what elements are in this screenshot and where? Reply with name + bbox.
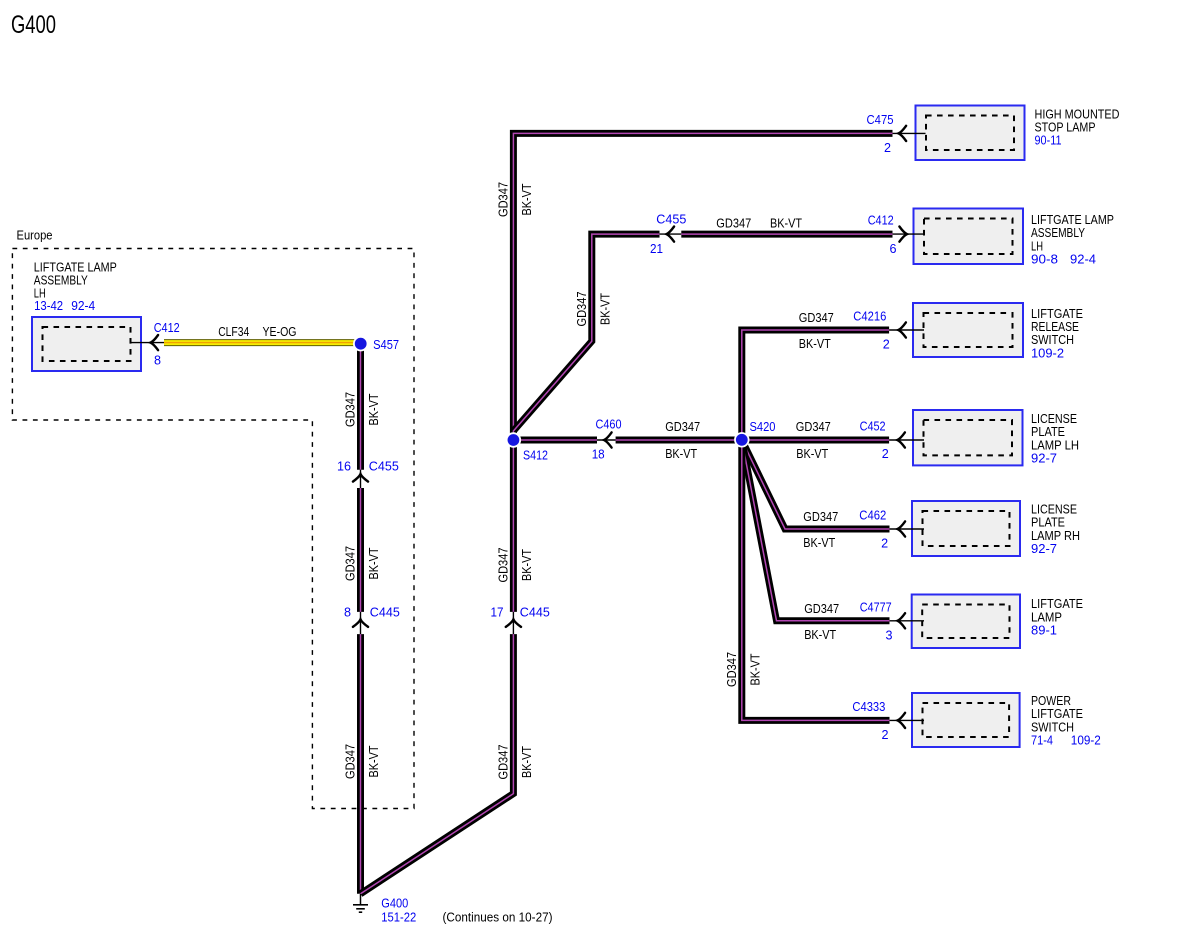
label LIFTGATE LAMP (right) xyxy=(1031,212,1114,227)
svg-text:151-22: 151-22 xyxy=(381,909,416,924)
svg-text:C4216: C4216 xyxy=(853,309,886,324)
label PLATE (LH) xyxy=(1031,424,1065,439)
label PLATE (RH) xyxy=(1031,515,1065,530)
connector arrow C445 pin 17 xyxy=(506,619,521,627)
svg-text:2: 2 xyxy=(882,446,889,461)
pin 16 xyxy=(337,459,351,474)
label GD347 (center lower segment) xyxy=(496,745,511,780)
svg-text:S457: S457 xyxy=(373,337,399,352)
connector box: license plate lamp LH C452 xyxy=(913,410,1023,465)
label GD347 (C4216 wire) xyxy=(799,310,834,325)
label BK-VT (C4216 wire) xyxy=(799,336,831,351)
pin 2 (C462) xyxy=(881,536,888,551)
svg-text:GD347: GD347 xyxy=(799,310,834,325)
svg-text:90-8: 90-8 xyxy=(1031,252,1058,267)
wire GD347 BK-VT: S412 to C460 pin 18 xyxy=(513,437,597,444)
label LH (right) xyxy=(1031,238,1043,253)
title G400 xyxy=(11,11,56,39)
svg-text:GD347: GD347 xyxy=(796,419,831,434)
label ASSEMBLY (right) xyxy=(1031,225,1085,240)
label C4216 xyxy=(853,309,886,324)
svg-text:GD347: GD347 xyxy=(724,652,739,687)
page ref 151-22 xyxy=(381,909,416,924)
svg-text:GD347: GD347 xyxy=(496,548,511,583)
svg-text:BK-VT: BK-VT xyxy=(799,336,831,351)
svg-text:G400: G400 xyxy=(11,11,56,39)
label GD347 (C452 wire) xyxy=(796,419,831,434)
label C4333 xyxy=(852,699,885,714)
svg-text:C452: C452 xyxy=(860,419,886,434)
wire GD347 BK-VT: S420 to license plate lamp LH C452 xyxy=(742,437,889,444)
label GD347 (S412-S420 wire) xyxy=(665,419,700,434)
page ref 13-42 xyxy=(34,298,63,313)
label GD347 (top segment) xyxy=(496,182,511,217)
svg-text:92-4: 92-4 xyxy=(71,298,95,313)
svg-text:C455: C455 xyxy=(656,212,686,227)
svg-text:BK-VT: BK-VT xyxy=(665,446,697,461)
connector arrow C455 pin 21 xyxy=(667,227,675,242)
connector box: license plate lamp RH C462 xyxy=(912,501,1020,556)
svg-text:C462: C462 xyxy=(859,508,886,523)
pin 6 xyxy=(890,241,897,256)
svg-text:21: 21 xyxy=(650,241,663,256)
label CLF34 xyxy=(218,324,249,339)
svg-text:6: 6 xyxy=(890,241,897,256)
wire lead through C445 pin 17 xyxy=(512,612,514,634)
svg-text:GD347: GD347 xyxy=(496,182,511,217)
svg-text:92-7: 92-7 xyxy=(1031,451,1057,466)
svg-text:BK-VT: BK-VT xyxy=(804,627,836,642)
svg-text:109-2: 109-2 xyxy=(1071,733,1101,748)
svg-text:BK-VT: BK-VT xyxy=(770,215,802,230)
wire GD347 BK-VT: C455 pin 21 to liftgate lamp assembly C412 xyxy=(681,231,892,238)
label GD347 (C4333 riser) xyxy=(724,652,739,687)
label BK-VT (center lower segment) xyxy=(519,746,534,778)
svg-text:C412: C412 xyxy=(868,213,894,228)
svg-text:GD347: GD347 xyxy=(574,292,589,327)
label LIFTGATE (release switch) xyxy=(1031,306,1083,321)
wire lead through C445 pin 8 xyxy=(360,612,362,634)
svg-text:C4777: C4777 xyxy=(860,599,892,614)
svg-text:C4333: C4333 xyxy=(852,699,885,714)
connector box: liftgate lamp assembly LH (Europe) C412 xyxy=(32,317,141,371)
page ref 90-8 xyxy=(1031,252,1058,267)
label LAMP RH xyxy=(1031,528,1080,543)
svg-text:(Continues on 10-27): (Continues on 10-27) xyxy=(443,910,553,925)
label G400 (ground) xyxy=(381,896,408,911)
wire GD347 BK-VT: S412 down to C445 pin 17 xyxy=(510,440,517,612)
label C452 xyxy=(860,419,886,434)
page ref 92-7 (RH) xyxy=(1031,541,1057,556)
svg-text:S420: S420 xyxy=(750,419,776,434)
svg-text:109-2: 109-2 xyxy=(1031,345,1064,360)
label BK-VT (C4333 riser) xyxy=(748,653,763,685)
label BK-VT (left mid segment) xyxy=(366,547,381,579)
pin 2 (C452) xyxy=(882,446,889,461)
svg-text:BK-VT: BK-VT xyxy=(366,547,381,579)
label GD347 (left mid segment) xyxy=(343,546,358,581)
svg-text:BK-VT: BK-VT xyxy=(519,549,534,581)
svg-text:8: 8 xyxy=(344,605,351,620)
svg-text:18: 18 xyxy=(592,447,605,462)
pin 2 (C4333) xyxy=(882,727,889,742)
wire GD347 BK-VT: S412 diagonal up to C455 pin 21 xyxy=(513,234,659,431)
pin 8 (C445) xyxy=(344,605,351,620)
label BK-VT (S457 segment) xyxy=(366,393,381,425)
page ref 71-4 xyxy=(1031,733,1053,748)
svg-text:BK-VT: BK-VT xyxy=(748,653,763,685)
connector arrow C412 pin 8 xyxy=(151,335,159,350)
wire lead into Europe C412 xyxy=(130,342,164,344)
svg-text:8: 8 xyxy=(154,353,161,368)
label BK-VT (top segment) xyxy=(519,183,534,215)
label LH (Europe) xyxy=(34,286,46,301)
label C455 (pin 21) xyxy=(656,212,686,227)
connector arrow C445 pin 8 xyxy=(353,619,368,627)
svg-text:2: 2 xyxy=(883,337,890,352)
svg-text:92-7: 92-7 xyxy=(1031,541,1057,556)
label GD347 (S457 segment) xyxy=(343,392,358,427)
label Europe xyxy=(17,228,53,243)
label ASSEMBLY (Europe) xyxy=(34,273,88,288)
connector box: liftgate release switch C4216 xyxy=(913,303,1023,357)
page ref 92-4 (Europe) xyxy=(71,298,95,313)
label GD347 (riser to C455) xyxy=(574,292,589,327)
ground symbol G400 xyxy=(353,894,368,912)
page ref 109-2 (power switch) xyxy=(1071,733,1101,748)
connector arrow C4216 pin 2 xyxy=(898,322,906,337)
connector arrow C455 pin 16 xyxy=(353,474,368,482)
label BK-VT (center mid segment) xyxy=(519,549,534,581)
svg-text:BK-VT: BK-VT xyxy=(519,746,534,778)
page ref 90-11 xyxy=(1035,133,1062,148)
svg-text:16: 16 xyxy=(337,459,351,474)
label C462 xyxy=(859,508,886,523)
label SWITCH (release) xyxy=(1031,332,1074,347)
svg-text:2: 2 xyxy=(881,536,888,551)
svg-text:92-4: 92-4 xyxy=(1070,252,1096,267)
svg-text:GD347: GD347 xyxy=(496,745,511,780)
label S420 xyxy=(750,419,776,434)
svg-text:90-11: 90-11 xyxy=(1035,133,1062,148)
connector box: liftgate lamp assembly LH C412 xyxy=(914,209,1024,265)
label BK-VT (riser to C455) xyxy=(597,293,612,325)
svg-text:BK-VT: BK-VT xyxy=(803,535,835,550)
wire GD347 BK-VT: C460 pin 18 to S420 xyxy=(616,437,742,444)
wire lead into C462 xyxy=(890,528,925,530)
wire CLF34 YE-OG: Europe C412 to splice S457 xyxy=(164,339,356,346)
connector arrow C460 pin 18 xyxy=(604,432,612,447)
label C475 xyxy=(867,112,894,127)
label LAMP xyxy=(1031,609,1062,624)
svg-text:17: 17 xyxy=(491,605,504,620)
label GD347 (C4777 wire) xyxy=(804,601,839,616)
page ref 109-2 (release switch) xyxy=(1031,345,1064,360)
label LAMP LH xyxy=(1031,437,1079,452)
label S412 xyxy=(523,448,548,463)
svg-text:BK-VT: BK-VT xyxy=(796,446,828,461)
connector arrow C4777 pin 3 xyxy=(898,613,906,628)
svg-text:GD347: GD347 xyxy=(665,419,700,434)
pin 18 xyxy=(592,447,605,462)
pin 17 xyxy=(491,605,504,620)
label HIGH MOUNTED xyxy=(1035,106,1120,121)
page ref 89-1 xyxy=(1031,623,1057,638)
svg-text:BK-VT: BK-VT xyxy=(366,393,381,425)
svg-text:3: 3 xyxy=(886,627,893,642)
svg-text:GD347: GD347 xyxy=(803,509,838,524)
label LIFTGATE LAMP (Europe) xyxy=(34,259,117,274)
label Continues on 10-27 xyxy=(443,910,553,925)
svg-text:GD347: GD347 xyxy=(343,744,358,779)
svg-text:C445: C445 xyxy=(370,605,400,620)
wire lead through C460 pin 18 xyxy=(597,439,616,441)
connector box: high mounted stop lamp C475 xyxy=(916,106,1025,161)
wire GD347 BK-VT: C445 pin 8 down to ground G400 xyxy=(357,634,364,894)
Europe option dashed boundary xyxy=(12,249,414,809)
label LICENSE (LH) xyxy=(1031,411,1077,426)
wire GD347 BK-VT: S457 down to C455 pin 16 xyxy=(357,344,364,470)
splice S457 xyxy=(353,336,368,351)
svg-text:G400: G400 xyxy=(381,896,408,911)
label YE-OG xyxy=(263,324,297,339)
label BK-VT (C455-C412 wire) xyxy=(770,215,802,230)
connector arrow C462 pin 2 xyxy=(898,521,906,536)
label BK-VT (S412-S420 wire) xyxy=(665,446,697,461)
svg-text:C412: C412 xyxy=(154,320,180,335)
label POWER xyxy=(1031,693,1071,708)
pin 3 (C4777) xyxy=(886,627,893,642)
svg-text:C475: C475 xyxy=(867,112,894,127)
wire GD347 BK-VT: C455 pin 16 to C445 pin 8 xyxy=(357,488,364,612)
pin 2 (C4216) xyxy=(883,337,890,352)
wire lead into C4777 xyxy=(890,620,925,622)
page ref 92-7 (LH) xyxy=(1031,451,1057,466)
wire GD347 BK-VT: S420 diagonal to license plate lamp RH C462 xyxy=(742,440,890,529)
label BK-VT (left lower segment) xyxy=(366,745,381,777)
label C412 (pin 6) xyxy=(868,213,894,228)
connector arrow C412 pin 6 xyxy=(899,227,907,242)
wire GD347 BK-VT: S412 up and right to C475 high mounted stop lamp xyxy=(513,133,892,440)
label GD347 (C455-C412 wire) xyxy=(716,215,751,230)
svg-text:GD347: GD347 xyxy=(716,215,751,230)
label C445 (pin 8) xyxy=(370,605,400,620)
label GD347 (center mid segment) xyxy=(496,548,511,583)
wire lead into C4333 xyxy=(890,719,925,721)
label LICENSE (RH) xyxy=(1031,502,1077,517)
label C455 (pin 16) xyxy=(369,459,399,474)
connector box: liftgate lamp C4777 xyxy=(912,595,1020,649)
svg-text:CLF34: CLF34 xyxy=(218,324,249,339)
label BK-VT (C452 wire) xyxy=(796,446,828,461)
wire GD347 BK-VT: S420 diagonal to liftgate lamp C4777 xyxy=(742,440,890,621)
page ref 92-4 (right) xyxy=(1070,252,1096,267)
svg-text:GD347: GD347 xyxy=(804,601,839,616)
pin 8 xyxy=(154,353,161,368)
svg-text:GD347: GD347 xyxy=(343,546,358,581)
label LIFTGATE (power switch) xyxy=(1031,706,1083,721)
svg-text:89-1: 89-1 xyxy=(1031,623,1057,638)
label C4777 xyxy=(860,599,892,614)
wire lead into C452 xyxy=(889,439,924,441)
label GD347 (C462 wire) xyxy=(803,509,838,524)
label BK-VT (C4777 wire) xyxy=(804,627,836,642)
connector arrow C4333 pin 2 xyxy=(898,713,906,728)
svg-text:C460: C460 xyxy=(596,417,622,432)
svg-text:BK-VT: BK-VT xyxy=(366,745,381,777)
svg-text:S412: S412 xyxy=(523,448,548,463)
svg-text:C455: C455 xyxy=(369,459,399,474)
svg-text:Europe: Europe xyxy=(17,228,53,243)
svg-text:13-42: 13-42 xyxy=(34,298,63,313)
wire lead into C475 xyxy=(893,132,926,134)
label LIFTGATE (lamp) xyxy=(1031,596,1083,611)
label BK-VT (C462 wire) xyxy=(803,535,835,550)
splice S412 xyxy=(506,432,521,447)
wire lead into C4216 xyxy=(889,329,924,331)
connector arrow C475 pin 2 xyxy=(899,126,907,141)
svg-text:71-4: 71-4 xyxy=(1031,733,1053,748)
svg-text:BK-VT: BK-VT xyxy=(597,293,612,325)
wire lead through C455 pin 16 xyxy=(360,470,362,488)
svg-text:C445: C445 xyxy=(520,605,550,620)
svg-text:YE-OG: YE-OG xyxy=(263,324,297,339)
svg-text:2: 2 xyxy=(884,140,891,155)
label STOP LAMP xyxy=(1035,120,1096,135)
wire lead through C455 pin 21 xyxy=(660,233,682,235)
svg-text:2: 2 xyxy=(882,727,889,742)
label GD347 (left lower segment) xyxy=(343,744,358,779)
pin 2 (C475) xyxy=(884,140,891,155)
connector box: power liftgate switch C4333 xyxy=(912,693,1020,747)
splice S420 xyxy=(734,432,749,447)
label C412 (Europe) xyxy=(154,320,180,335)
label RELEASE xyxy=(1031,319,1079,334)
svg-text:GD347: GD347 xyxy=(343,392,358,427)
connector arrow C452 pin 2 xyxy=(897,432,905,447)
label C445 (pin 17) xyxy=(520,605,550,620)
label SWITCH (power) xyxy=(1031,719,1074,734)
label S457 xyxy=(373,337,399,352)
wire lead into C412 pin 6 xyxy=(893,233,926,235)
svg-text:BK-VT: BK-VT xyxy=(519,183,534,215)
pin 21 xyxy=(650,241,663,256)
label C460 xyxy=(596,417,622,432)
wire GD347 BK-VT: C445 pin 17 down to ground G400 xyxy=(361,634,514,894)
wire GD347 BK-VT: S420 up to liftgate release switch C4216 xyxy=(742,330,889,440)
wire GD347 BK-VT: S420 down to power liftgate switch C4333 xyxy=(742,440,890,720)
